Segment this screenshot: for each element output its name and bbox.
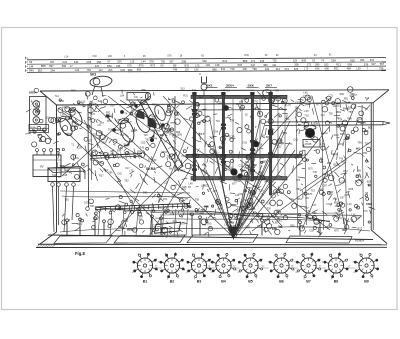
svg-text:364: 364 — [360, 58, 365, 62]
capacitor C79 electrolytic — [68, 107, 85, 127]
svg-text:S56: S56 — [150, 129, 155, 132]
svg-text:125: 125 — [293, 59, 298, 63]
svg-text:C29: C29 — [120, 68, 125, 72]
svg-text:T71: T71 — [156, 130, 161, 133]
connector KR5A body — [30, 97, 47, 131]
svg-text:688: 688 — [212, 67, 217, 71]
svg-text:865: 865 — [137, 68, 142, 72]
tube socket B2 — [158, 253, 186, 281]
svg-text:B95: B95 — [364, 130, 369, 133]
node inter-socket annotations — [155, 266, 355, 269]
svg-text:R92: R92 — [106, 111, 111, 114]
svg-text:B89: B89 — [283, 132, 288, 135]
svg-text:206: 206 — [108, 68, 113, 72]
svg-text:R53: R53 — [343, 170, 348, 173]
svg-text:220: 220 — [95, 64, 100, 68]
svg-text:440: 440 — [74, 60, 79, 64]
svg-text:T91: T91 — [243, 98, 248, 101]
svg-text:B2: B2 — [170, 280, 175, 284]
svg-text:978: 978 — [149, 60, 154, 64]
svg-text:S73: S73 — [363, 210, 368, 213]
wire cluster mid-left dense core — [90, 100, 183, 161]
svg-text:B98: B98 — [252, 164, 257, 167]
switch assembly bottom rail — [191, 177, 287, 180]
svg-text:C39: C39 — [259, 189, 264, 192]
svg-text:944: 944 — [221, 67, 226, 71]
svg-text:C74: C74 — [229, 222, 234, 225]
node chassis pad 4 — [286, 236, 352, 243]
svg-text:259: 259 — [117, 60, 122, 64]
svg-text:S70: S70 — [91, 113, 96, 116]
svg-text:T86: T86 — [252, 67, 257, 71]
svg-text:S80: S80 — [138, 215, 143, 218]
battery BT1 box — [33, 155, 61, 177]
svg-text:S90: S90 — [290, 225, 295, 228]
svg-text:T36: T36 — [365, 143, 370, 146]
svg-text:B83: B83 — [266, 136, 271, 139]
svg-text:L90: L90 — [108, 55, 113, 58]
svg-text:SKK: SKK — [248, 84, 255, 88]
svg-text:T86: T86 — [108, 172, 113, 175]
svg-text:T45: T45 — [313, 171, 318, 174]
svg-text:525: 525 — [294, 67, 299, 71]
tube socket B1 — [132, 253, 159, 277]
svg-text:R98: R98 — [347, 118, 352, 121]
svg-text:C30: C30 — [77, 147, 82, 150]
svg-text:L61: L61 — [62, 106, 67, 109]
svg-text:T13: T13 — [365, 97, 370, 100]
svg-text:L14: L14 — [64, 55, 69, 58]
svg-text:C58: C58 — [309, 230, 314, 233]
svg-text:B49: B49 — [218, 208, 223, 211]
svg-text:754: 754 — [87, 68, 92, 72]
svg-text:C28: C28 — [234, 218, 239, 221]
svg-text:B98: B98 — [204, 205, 209, 208]
svg-text:S42: S42 — [223, 108, 228, 111]
wire comb risers — [98, 209, 188, 236]
svg-text:R85: R85 — [37, 134, 42, 137]
svg-text:L92: L92 — [206, 63, 211, 67]
svg-text:S53: S53 — [296, 188, 301, 191]
switch post 3 — [251, 95, 253, 181]
svg-text:R21: R21 — [339, 143, 344, 146]
svg-text:C89: C89 — [230, 136, 235, 139]
svg-text:468: 468 — [347, 67, 352, 71]
svg-text:B96: B96 — [143, 191, 148, 194]
svg-text:B31: B31 — [150, 228, 155, 231]
svg-text:L63: L63 — [307, 210, 312, 213]
wire cluster mid-left — [115, 100, 196, 236]
wire SKRA flat cable band — [140, 99, 183, 170]
svg-text:SK7: SK7 — [266, 84, 272, 88]
svg-text:L20: L20 — [110, 153, 115, 156]
svg-text:S15: S15 — [36, 110, 41, 113]
svg-text:T44: T44 — [145, 207, 150, 210]
svg-text:218: 218 — [260, 59, 265, 63]
svg-text:T28: T28 — [198, 133, 203, 136]
wire cluster left tubes area — [53, 99, 122, 181]
svg-text:4T035: 4T035 — [305, 143, 312, 146]
svg-text:L32: L32 — [277, 146, 282, 149]
svg-text:T78: T78 — [296, 179, 301, 182]
svg-text:R71: R71 — [163, 198, 168, 201]
node chassis left vertical edge — [56, 105, 58, 232]
svg-text:T44: T44 — [153, 138, 158, 141]
svg-text:T50: T50 — [89, 102, 94, 105]
node chassis mounting posts — [66, 213, 322, 236]
svg-text:S57: S57 — [88, 140, 93, 143]
svg-text:B61: B61 — [368, 126, 373, 129]
coil assembly dark dots — [107, 105, 165, 142]
svg-text:R50: R50 — [107, 64, 112, 68]
node chassis top back edge — [40, 90, 389, 91]
svg-text:B77: B77 — [232, 183, 237, 186]
node switch post caps — [193, 92, 273, 95]
svg-text:R61: R61 — [181, 169, 186, 172]
svg-text:B49: B49 — [60, 100, 65, 103]
node chassis base upper line — [48, 235, 373, 240]
svg-text:S31: S31 — [101, 141, 106, 144]
svg-text:S33: S33 — [204, 185, 209, 188]
node switch post lugs — [192, 109, 273, 171]
svg-text:R80: R80 — [152, 104, 157, 107]
svg-text:C97: C97 — [254, 176, 259, 179]
svg-text:B5: B5 — [248, 280, 253, 284]
svg-text:L11: L11 — [358, 118, 363, 121]
capacitor C9 — [127, 93, 148, 101]
svg-text:679: 679 — [127, 64, 132, 68]
svg-text:B39: B39 — [314, 122, 319, 125]
svg-text:B4: B4 — [221, 280, 226, 284]
svg-text:B72: B72 — [107, 120, 112, 123]
svg-text:R99: R99 — [128, 68, 133, 72]
transformer T1 box — [48, 167, 85, 173]
svg-text:S61: S61 — [298, 198, 303, 201]
svg-text:R37: R37 — [202, 210, 207, 213]
node contact comb strip — [95, 204, 190, 215]
svg-text:T89: T89 — [312, 212, 317, 215]
potentiometer R40 knob — [305, 128, 314, 137]
svg-text:435: 435 — [116, 64, 121, 68]
svg-text:T15: T15 — [333, 198, 338, 201]
svg-text:T92: T92 — [254, 100, 259, 103]
svg-text:R46: R46 — [29, 68, 34, 72]
svg-text:748: 748 — [173, 68, 178, 72]
svg-text:L92: L92 — [175, 114, 180, 117]
svg-text:T41: T41 — [192, 89, 197, 92]
svg-text:690: 690 — [325, 67, 330, 71]
svg-text:S82: S82 — [229, 167, 234, 170]
node chassis front-top edge — [57, 103, 374, 105]
svg-text:T42: T42 — [218, 205, 223, 208]
svg-text:380: 380 — [263, 63, 268, 67]
svg-text:336: 336 — [243, 67, 248, 71]
svg-text:SK1: SK1 — [207, 84, 213, 88]
switch post 2 — [222, 95, 224, 181]
svg-text:407: 407 — [50, 60, 55, 64]
switch SK3 dial — [90, 75, 113, 88]
svg-text:S58: S58 — [232, 177, 237, 180]
svg-text:T15: T15 — [311, 190, 316, 193]
svg-text:T89: T89 — [61, 165, 66, 168]
svg-text:R72: R72 — [358, 228, 363, 231]
switch assembly top rail — [191, 95, 287, 98]
svg-text:782: 782 — [161, 59, 166, 63]
svg-text:S88: S88 — [218, 177, 223, 180]
svg-text:B90: B90 — [72, 121, 77, 124]
svg-text:T90: T90 — [90, 205, 95, 208]
svg-text:672: 672 — [285, 67, 290, 71]
svg-text:R32: R32 — [137, 212, 142, 215]
svg-text:L84: L84 — [120, 95, 125, 98]
node chassis pad 3 — [187, 235, 258, 243]
svg-text:T70: T70 — [303, 95, 308, 98]
switch bank labels SK1 SD04 SKK SK7 — [206, 84, 278, 88]
svg-text:112: 112 — [99, 68, 104, 72]
svg-text:S99: S99 — [347, 62, 352, 66]
svg-text:L76: L76 — [320, 143, 325, 146]
vacuum tube B3 envelope — [133, 110, 152, 135]
svg-text:C82: C82 — [238, 193, 243, 196]
svg-text:L56: L56 — [194, 67, 199, 71]
svg-text:636: 636 — [315, 67, 320, 71]
node chassis right vertical edge — [370, 103, 372, 230]
svg-text:T81: T81 — [158, 206, 163, 209]
svg-text:S66: S66 — [124, 121, 129, 124]
svg-text:B60: B60 — [56, 148, 61, 151]
svg-text:L43: L43 — [75, 68, 80, 72]
svg-text:272: 272 — [307, 63, 312, 67]
tube socket B4 — [210, 253, 238, 277]
svg-text:B41: B41 — [98, 100, 103, 103]
tube socket B9 — [353, 253, 379, 279]
svg-text:T63: T63 — [252, 108, 257, 111]
svg-text:S9: S9 — [29, 60, 33, 64]
svg-text:SK3: SK3 — [90, 73, 96, 77]
svg-text:SD04: SD04 — [226, 84, 234, 88]
tube socket B6 — [268, 253, 296, 280]
svg-text:L15: L15 — [130, 60, 135, 64]
wire cluster below switch — [195, 183, 295, 237]
svg-text:C31: C31 — [359, 179, 364, 182]
svg-text:R88: R88 — [349, 188, 354, 191]
svg-text:L69: L69 — [303, 91, 308, 94]
svg-text:C87: C87 — [323, 184, 328, 187]
svg-text:L44: L44 — [29, 64, 34, 68]
svg-text:B62: B62 — [240, 206, 245, 209]
node dark cluster blob 2 — [253, 141, 259, 147]
svg-text:R19824: R19824 — [355, 239, 365, 243]
wire SKRA band lower junction — [179, 170, 196, 177]
svg-text:T12: T12 — [336, 117, 341, 120]
svg-text:C75: C75 — [344, 194, 349, 197]
svg-text:Fig.8: Fig.8 — [75, 251, 85, 256]
svg-text:L33: L33 — [164, 181, 169, 184]
svg-text:927: 927 — [371, 62, 376, 66]
svg-text:L55: L55 — [127, 210, 132, 213]
svg-text:L82: L82 — [324, 63, 329, 67]
wire bottom curve — [95, 207, 330, 222]
svg-text:T62: T62 — [145, 139, 150, 142]
wire cluster bottom band right — [201, 203, 358, 235]
svg-text:C53: C53 — [131, 102, 136, 105]
svg-text:S71: S71 — [124, 218, 129, 221]
svg-text:C37: C37 — [295, 101, 300, 104]
svg-text:175: 175 — [304, 67, 309, 71]
svg-text:T33: T33 — [191, 164, 196, 167]
svg-text:R31: R31 — [183, 95, 188, 98]
switch assembly mid rail — [186, 154, 302, 157]
svg-text:B6: B6 — [279, 280, 284, 284]
wire bottom horizontal harness — [150, 212, 362, 221]
svg-text:L75: L75 — [195, 63, 200, 67]
svg-text:158: 158 — [97, 60, 102, 64]
svg-text:B58: B58 — [41, 64, 46, 68]
wire internal vertical x88 — [87, 104, 90, 207]
node switch thin rail — [195, 109, 287, 112]
svg-text:B3: B3 — [197, 280, 202, 284]
svg-text:S30: S30 — [271, 104, 276, 107]
svg-text:R27: R27 — [127, 229, 132, 232]
svg-text:T54: T54 — [120, 134, 125, 137]
wire internal vertical x175 — [174, 96, 176, 172]
svg-text:T13: T13 — [226, 90, 231, 93]
svg-text:B30: B30 — [302, 59, 307, 63]
svg-text:R93: R93 — [71, 90, 76, 93]
connector KR5A terminal box — [29, 125, 49, 133]
vacuum tube B2 envelope — [118, 118, 137, 144]
capacitor C78 electrolytic — [57, 116, 74, 137]
svg-text:R12: R12 — [336, 62, 341, 66]
node chassis mid shelf — [265, 121, 383, 124]
svg-text:C91: C91 — [60, 114, 65, 117]
svg-text:B33: B33 — [340, 133, 345, 136]
svg-text:L50: L50 — [356, 66, 361, 70]
node parts-table frame — [26, 57, 387, 73]
svg-text:R31: R31 — [222, 59, 227, 63]
svg-text:C90: C90 — [314, 223, 319, 226]
wire cluster switch interior — [195, 98, 292, 185]
svg-text:R75: R75 — [150, 64, 155, 68]
svg-text:S99: S99 — [176, 131, 181, 134]
svg-text:S17: S17 — [251, 63, 256, 67]
tube socket B5 — [238, 253, 264, 280]
node left hatched rail — [90, 152, 142, 159]
svg-text:S36: S36 — [252, 150, 257, 153]
svg-text:T30: T30 — [267, 208, 272, 211]
resistor pack 4T035 — [303, 140, 320, 148]
svg-text:B81: B81 — [337, 111, 342, 114]
wire cluster right side — [292, 95, 376, 238]
svg-text:R12: R12 — [334, 134, 339, 137]
svg-text:L20: L20 — [218, 101, 223, 104]
svg-text:R67: R67 — [241, 170, 246, 173]
wire harness long diagonals — [58, 96, 372, 238]
svg-text:T93: T93 — [124, 180, 129, 183]
svg-text:307: 307 — [169, 59, 174, 63]
svg-text:897: 897 — [49, 64, 54, 68]
node chassis pad 1 — [54, 236, 112, 244]
svg-text:L44: L44 — [141, 60, 146, 64]
svg-text:B89: B89 — [142, 89, 147, 92]
svg-text:B29: B29 — [367, 181, 372, 184]
svg-text:739: 739 — [230, 67, 235, 71]
svg-text:C50: C50 — [141, 142, 146, 145]
svg-text:R27: R27 — [99, 175, 104, 178]
svg-text:S43: S43 — [103, 169, 108, 172]
svg-text:S90: S90 — [207, 222, 212, 225]
svg-text:B32: B32 — [185, 63, 190, 67]
svg-text:B85: B85 — [189, 212, 194, 215]
svg-text:T29: T29 — [143, 134, 148, 137]
svg-text:308: 308 — [294, 63, 299, 67]
svg-text:R21: R21 — [181, 188, 186, 191]
svg-text:L65: L65 — [110, 104, 115, 107]
svg-text:R64: R64 — [258, 172, 263, 175]
svg-text:828: 828 — [350, 58, 355, 62]
svg-text:L92: L92 — [81, 101, 86, 104]
svg-text:B48: B48 — [253, 185, 258, 188]
svg-text:B1: B1 — [143, 280, 148, 284]
svg-text:T12: T12 — [55, 95, 60, 98]
node tuning capacitor vane 3 — [137, 110, 144, 119]
svg-text:C11: C11 — [238, 165, 243, 168]
capacitor C8 ring — [263, 90, 272, 97]
svg-text:S14: S14 — [52, 174, 57, 177]
tube socket B3 — [186, 253, 212, 280]
svg-text:R30: R30 — [244, 54, 249, 57]
svg-text:632: 632 — [265, 67, 270, 71]
svg-text:T42: T42 — [140, 146, 145, 149]
svg-text:R98: R98 — [67, 133, 72, 136]
svg-text:T32: T32 — [164, 131, 169, 134]
node chassis pad 2 — [114, 235, 185, 243]
svg-text:120: 120 — [185, 68, 190, 72]
svg-text:502: 502 — [202, 59, 207, 63]
svg-text:B8: B8 — [334, 280, 339, 284]
wire cluster left column — [25, 88, 61, 151]
svg-text:B75: B75 — [334, 230, 339, 233]
svg-text:554: 554 — [331, 58, 336, 62]
svg-text:T58: T58 — [348, 111, 353, 114]
svg-text:R61: R61 — [344, 97, 349, 100]
svg-text:R32: R32 — [341, 161, 346, 164]
svg-text:B9: B9 — [364, 280, 369, 284]
svg-text:T91: T91 — [216, 120, 221, 123]
wire cluster top band — [71, 87, 370, 110]
svg-text:L31: L31 — [65, 169, 70, 172]
svg-text:L88: L88 — [239, 101, 244, 104]
svg-text:244: 244 — [51, 68, 56, 72]
svg-text:B78: B78 — [180, 222, 185, 225]
wire horizontal mid-left wires — [60, 191, 190, 193]
node chassis top-left corner diagonal — [40, 91, 57, 105]
svg-text:S13: S13 — [180, 88, 185, 91]
svg-text:T66: T66 — [35, 105, 40, 108]
svg-text:S14: S14 — [124, 143, 129, 146]
svg-text:S72: S72 — [245, 161, 250, 164]
svg-text:C9: C9 — [134, 95, 138, 99]
svg-text:L62: L62 — [251, 202, 256, 205]
svg-text:C67: C67 — [84, 201, 89, 204]
wire cluster bottom left strip — [62, 198, 200, 238]
svg-text:280: 280 — [315, 63, 320, 67]
svg-text:B76: B76 — [308, 193, 313, 196]
svg-text:L35: L35 — [152, 116, 157, 119]
switch post 1 — [193, 95, 195, 181]
svg-text:L21: L21 — [170, 213, 175, 216]
svg-text:C82: C82 — [117, 173, 122, 176]
